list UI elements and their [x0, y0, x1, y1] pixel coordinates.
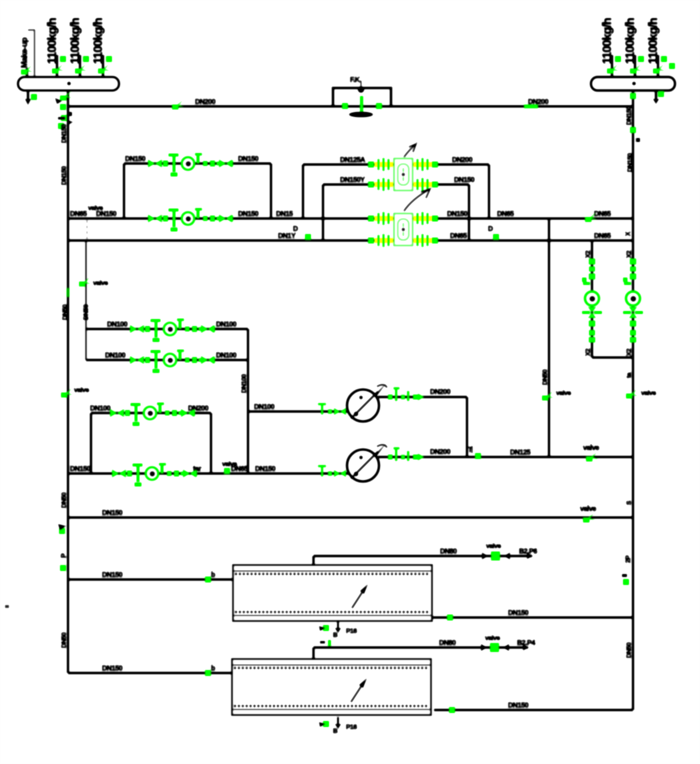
svg-text:DN150: DN150: [61, 166, 68, 185]
unit U1 piping top row: [303, 157, 489, 165]
heat exchanger HX1: [233, 565, 432, 621]
svg-text:DN100: DN100: [241, 374, 248, 393]
control valve station A4: [130, 350, 215, 374]
bypass loop 1 left drop: [123, 164, 125, 219]
svg-text:DN150: DN150: [96, 211, 117, 218]
svg-text:P16: P16: [346, 724, 357, 731]
dashed stub between buses: [86, 220, 88, 240]
svg-text:DN15: DN15: [276, 211, 293, 218]
bypass loop 3 top row: [90, 406, 211, 414]
bypass loop 2 row 1: [86, 322, 248, 330]
pipe into H2 #2: [623, 18, 637, 77]
drain stub below H2: [653, 90, 664, 104]
header drum H2 (top right): [591, 77, 675, 91]
svg-text:DN65: DN65: [594, 211, 611, 218]
svg-text:DN65: DN65: [70, 211, 87, 218]
svg-text:b: b: [211, 666, 215, 673]
bypass loop 1 right drop: [270, 164, 272, 219]
HX1 drain stub: [319, 621, 357, 639]
left riser pipe: [67, 90, 69, 673]
green arrow bus1 right: [585, 213, 597, 223]
svg-text:1100kg/h: 1100kg/h: [91, 18, 105, 64]
hanging valve string S2: [625, 219, 633, 358]
level gauge line on H1: [28, 30, 35, 77]
discharge valves pump1: [388, 387, 424, 401]
right riser lower: [622, 358, 633, 711]
svg-text:b: b: [211, 572, 215, 579]
svg-text:DN150: DN150: [627, 153, 634, 172]
pump discharge bus: [378, 445, 633, 457]
svg-text:DN65: DN65: [594, 233, 611, 240]
svg-text:DN150: DN150: [238, 211, 259, 218]
svg-text:DN80: DN80: [439, 640, 456, 647]
svg-text:DN150: DN150: [61, 124, 68, 143]
svg-text:X2: X2: [626, 348, 633, 356]
svg-text:B: B: [333, 632, 338, 639]
plate unit U1: [394, 159, 413, 191]
svg-text:valve: valve: [74, 387, 89, 394]
green tick riser: [67, 288, 70, 297]
svg-text:valve: valve: [485, 635, 500, 642]
bypass loop 3 right drop: [210, 413, 212, 474]
HX1 inlet line: [68, 572, 233, 583]
branch drop x86: [62, 241, 90, 361]
main top line DN200: [68, 99, 633, 106]
node D left: [293, 226, 311, 240]
svg-text:DN100: DN100: [90, 406, 111, 413]
svg-text:DN150: DN150: [70, 466, 91, 473]
valve tap on branch: [79, 277, 108, 287]
svg-text:ta: ta: [626, 372, 633, 378]
pump suction header row: [68, 466, 350, 474]
svg-text:valve: valve: [580, 506, 596, 513]
control valve station A2: [148, 208, 233, 232]
svg-text:DN200: DN200: [430, 389, 451, 396]
svg-text:DN1Y: DN1Y: [278, 233, 296, 240]
suction valves pump1: [318, 403, 346, 415]
control valve station A5: [110, 403, 195, 427]
marks near riser top: [55, 91, 73, 129]
pump 1 suction line: [248, 404, 350, 412]
U2 vent arrow: [404, 189, 430, 211]
svg-text:DN150: DN150: [102, 666, 123, 673]
svg-text:B2.P4: B2.P4: [517, 640, 535, 647]
svg-text:DN150: DN150: [508, 703, 529, 710]
svg-text:DN150: DN150: [626, 106, 633, 125]
svg-text:DN65: DN65: [450, 233, 467, 240]
svg-text:D: D: [293, 226, 298, 233]
unit U1 piping bottom row: [323, 177, 475, 185]
svg-text:Make-up: Make-up: [20, 37, 29, 68]
U1 riser right a: [488, 165, 490, 219]
svg-text:DN100: DN100: [216, 322, 237, 329]
riser marks lower: [58, 524, 68, 648]
svg-text:X2: X2: [626, 250, 633, 258]
svg-text:1100kg/h: 1100kg/h: [45, 18, 59, 64]
collector drop x248: [241, 329, 248, 474]
svg-text:2P: 2P: [625, 555, 632, 563]
stray mark: [5, 605, 9, 608]
green arrows at H1 inlets: [21, 56, 112, 75]
svg-text:DN150: DN150: [454, 177, 475, 184]
TI tag on discharge bus: [468, 446, 481, 459]
svg-text:DN50: DN50: [626, 642, 633, 658]
supply bus line 1: [68, 211, 633, 219]
svg-text:DN150: DN150: [102, 572, 123, 579]
bypass loop 2 row 2: [86, 353, 248, 361]
svg-text:B: B: [333, 728, 338, 735]
svg-text:1100kg/h: 1100kg/h: [623, 18, 637, 64]
svg-text:D: D: [488, 226, 493, 233]
U1 riser left b: [322, 185, 324, 241]
svg-text:DN150Y: DN150Y: [340, 177, 365, 184]
svg-text:DN200: DN200: [195, 99, 216, 106]
svg-text:1100kg/h: 1100kg/h: [68, 18, 82, 64]
svg-text:X2: X2: [585, 348, 592, 356]
green arrows at H2 inlets: [607, 56, 675, 74]
suction valves pump2: [318, 465, 346, 477]
U1 yellow connectors: [368, 158, 438, 191]
svg-text:valve: valve: [641, 390, 656, 397]
HX1 vapor pipe: [314, 543, 538, 565]
svg-text:DN200: DN200: [430, 449, 451, 456]
flow meter F.K. on top line: [333, 77, 391, 117]
svg-text:F.K.: F.K.: [350, 77, 362, 84]
heat exchanger HX2: [232, 659, 431, 715]
hanging valve string S1: [585, 241, 592, 358]
svg-text:DN50: DN50: [61, 632, 68, 648]
pipe into H2 #1: [600, 18, 614, 77]
green arrow return line: [583, 513, 595, 523]
bypass loop 3 left drop: [90, 413, 92, 474]
green arrow discharge bus: [586, 452, 598, 462]
svg-text:DN150: DN150: [238, 156, 259, 163]
svg-text:valve: valve: [93, 280, 108, 287]
green marks on top line: [172, 100, 538, 110]
svg-text:DN50: DN50: [61, 492, 68, 508]
control valve station A3: [130, 319, 215, 343]
HX2 outlet line: [434, 703, 633, 714]
HX2 vapor pipe: [314, 635, 536, 659]
svg-text:valve: valve: [222, 461, 237, 468]
svg-text:DN150: DN150: [447, 211, 468, 218]
DN50 drop line: [542, 219, 549, 458]
control valve station A6: [112, 463, 197, 487]
svg-text:DN100: DN100: [216, 353, 237, 360]
valve tag on DN50 line: [542, 390, 571, 401]
svg-text:DN100: DN100: [254, 404, 275, 411]
svg-text:DN125A: DN125A: [340, 157, 365, 164]
U1 riser right b: [468, 185, 470, 241]
valve tag on right riser: [626, 389, 656, 399]
svg-text:valve: valve: [583, 445, 599, 452]
svg-text:DN125: DN125: [510, 450, 531, 457]
pipe into H2 #3: [646, 18, 660, 77]
node D right: [488, 226, 499, 240]
supply bus line 2: [68, 233, 633, 241]
pipe into H1 #2: [45, 18, 59, 77]
svg-text:X2: X2: [585, 250, 592, 258]
svg-text:P16: P16: [346, 628, 357, 635]
pump P2: [347, 444, 387, 482]
valve tag on riser mid: [61, 387, 89, 398]
HX2 drain stub: [319, 717, 357, 735]
HX1 vapor valve: [482, 552, 533, 561]
riser labels rotated: [61, 124, 68, 185]
U1 vent arrow: [404, 144, 416, 157]
valve tag at junction: [222, 461, 237, 474]
svg-text:DN50: DN50: [83, 304, 90, 320]
marks below H2 on right riser: [626, 93, 640, 172]
U1 riser left a: [302, 165, 304, 219]
svg-text:P: P: [61, 553, 68, 558]
bypass loop 1 top row: [124, 156, 271, 164]
svg-text:DN150: DN150: [508, 610, 529, 617]
pipe into H1 #3: [68, 18, 82, 77]
right riser upper: [632, 90, 634, 219]
svg-text:DN100: DN100: [107, 322, 128, 329]
pump 1 discharge: [378, 389, 467, 457]
HX1 outlet line: [432, 610, 633, 621]
svg-text:DN50: DN50: [62, 304, 69, 320]
pipe into H1 #4: [91, 18, 105, 77]
svg-text:valve: valve: [88, 205, 103, 212]
svg-text:valve: valve: [486, 543, 501, 550]
svg-text:DN50: DN50: [542, 369, 549, 385]
control valve station A1: [148, 153, 233, 177]
HX2 inlet line: [68, 666, 232, 677]
svg-text:valve: valve: [556, 390, 571, 397]
string bottom connector: [592, 356, 633, 358]
plate unit U2 yellow connectors: [368, 212, 438, 247]
drain stub below H1: [25, 90, 37, 105]
header drum H1 (top left): [18, 77, 119, 91]
svg-text:DN150: DN150: [255, 466, 276, 473]
svg-text:DN150: DN150: [125, 156, 146, 163]
return line mid: [68, 506, 633, 518]
svg-text:DN150: DN150: [102, 510, 123, 517]
svg-text:DN65: DN65: [497, 211, 514, 218]
pump P1: [347, 384, 387, 422]
pipe into H1 #1: [20, 37, 29, 77]
svg-text:1100kg/h: 1100kg/h: [600, 18, 614, 64]
svg-text:DN80: DN80: [440, 549, 457, 556]
svg-text:DN100: DN100: [105, 353, 126, 360]
svg-text:DN200: DN200: [452, 157, 473, 164]
svg-text:1100kg/h: 1100kg/h: [646, 18, 660, 64]
plate unit U2: [394, 214, 413, 246]
HX2 vapor valve: [481, 643, 529, 652]
discharge valves pump2: [388, 447, 424, 461]
